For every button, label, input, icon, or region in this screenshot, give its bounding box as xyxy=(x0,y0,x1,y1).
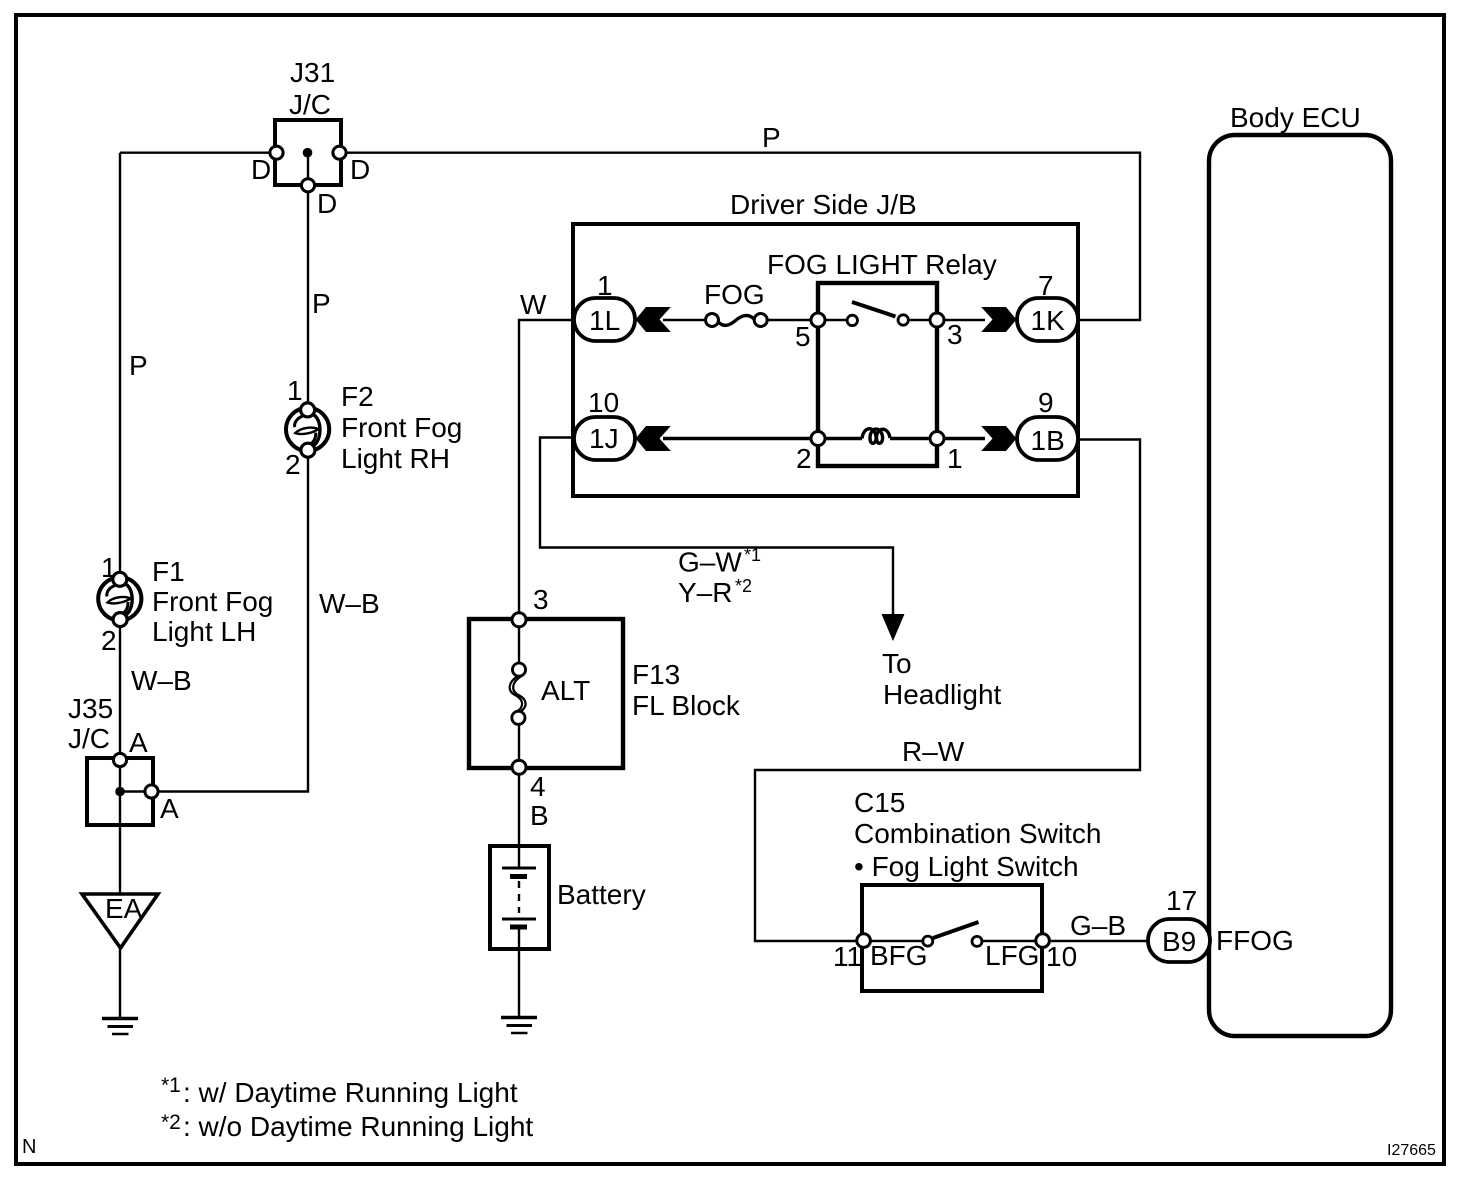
J31 J/C box xyxy=(275,120,341,185)
connector 1K xyxy=(1017,298,1078,341)
svg-text:I27665: I27665 xyxy=(1387,1142,1436,1159)
arrowhead to headlight xyxy=(882,614,905,641)
wire through J35 to EA xyxy=(119,759,121,895)
relay pin 2 xyxy=(811,432,825,446)
svg-text:Front Fog: Front Fog xyxy=(341,412,462,443)
ground symbol battery xyxy=(501,1018,537,1034)
ground symbol left xyxy=(102,1019,138,1035)
wire relay pin5 to left contact xyxy=(818,319,847,321)
C15 pin 10 xyxy=(1036,934,1050,948)
svg-text:17: 17 xyxy=(1166,885,1197,916)
svg-text:2: 2 xyxy=(101,625,117,656)
C15 pin 11 xyxy=(857,934,871,948)
svg-text:C15: C15 xyxy=(854,787,905,818)
svg-text:F13: F13 xyxy=(632,659,680,690)
ground EA triangle xyxy=(82,894,158,948)
wire fuse row: 1L arrow to fuse xyxy=(663,319,712,321)
svg-text:To: To xyxy=(882,648,912,679)
wire relay pin2 to coil xyxy=(818,437,862,440)
svg-text:• Fog Light Switch: • Fog Light Switch xyxy=(854,851,1079,882)
svg-text:Light RH: Light RH xyxy=(341,443,450,474)
wire W-B from F2 down and left to J35 xyxy=(152,457,308,792)
svg-text:N: N xyxy=(22,1136,36,1158)
F13 fusible link ALT xyxy=(510,663,526,724)
wire G-B from C15 pin10 to B9 xyxy=(1042,940,1150,942)
svg-text:Light LH: Light LH xyxy=(152,616,256,647)
svg-text:J/C: J/C xyxy=(289,89,331,120)
svg-text:9: 9 xyxy=(1038,387,1054,418)
svg-text:B9: B9 xyxy=(1162,926,1196,957)
svg-text:W–B: W–B xyxy=(319,588,380,619)
wire J35 dot to right pin xyxy=(120,790,152,792)
svg-text:W–B: W–B xyxy=(131,665,192,696)
svg-text:3: 3 xyxy=(533,584,549,615)
connector B9 xyxy=(1148,919,1210,962)
svg-text:*2: *2 xyxy=(735,576,752,596)
wire R-W from 1B to C15 pin11 xyxy=(755,440,1140,942)
J35 junction dot xyxy=(115,787,125,797)
svg-text:1L: 1L xyxy=(589,305,620,336)
svg-text:FL Block: FL Block xyxy=(632,690,741,721)
svg-text:1B: 1B xyxy=(1031,425,1065,456)
wire P from J31 down to F2 xyxy=(307,186,309,404)
svg-text:3: 3 xyxy=(947,319,963,350)
svg-text:*2: *2 xyxy=(161,1111,181,1134)
svg-text:F2: F2 xyxy=(341,381,374,412)
svg-text:EA: EA xyxy=(105,893,143,924)
F13 pin 4 xyxy=(512,760,526,774)
FOG LIGHT Relay box xyxy=(818,283,937,466)
J31 pin bottom D xyxy=(301,179,314,192)
svg-text:FOG LIGHT Relay: FOG LIGHT Relay xyxy=(767,249,997,280)
wire W-B left below F1 to J35 xyxy=(119,627,121,759)
svg-text:A: A xyxy=(160,793,179,824)
Body ECU box xyxy=(1209,135,1391,1036)
connector 1L xyxy=(574,298,635,341)
svg-text:G–W: G–W xyxy=(678,547,742,578)
wire G-W from 1J to headlight arrow xyxy=(540,438,893,618)
svg-text:5: 5 xyxy=(795,321,811,352)
lamp F2 front fog light RH xyxy=(286,403,329,457)
wire C15 right contact to pin10 xyxy=(982,940,1042,942)
arrow at 1L xyxy=(636,307,671,332)
svg-text:Battery: Battery xyxy=(557,879,646,910)
svg-text:Y–R: Y–R xyxy=(678,577,732,608)
relay pin 5 xyxy=(811,313,825,327)
battery internals xyxy=(502,868,536,927)
svg-text:D: D xyxy=(350,154,370,185)
connector 1J xyxy=(574,417,635,460)
lamp F1 front fog light LH xyxy=(98,572,141,626)
wire EA to ground xyxy=(119,947,121,1018)
svg-text:1K: 1K xyxy=(1031,305,1066,336)
svg-text:P: P xyxy=(129,350,148,381)
svg-text:1: 1 xyxy=(101,552,117,583)
battery box xyxy=(490,846,549,949)
svg-text:7: 7 xyxy=(1038,270,1054,301)
wire pin3 to 1K arrow xyxy=(937,319,985,321)
svg-text:W: W xyxy=(520,289,547,320)
wire F13 internal upper xyxy=(518,619,520,666)
J31 pin right D xyxy=(333,146,346,159)
svg-text:ALT: ALT xyxy=(541,675,590,706)
wire 1J arrow to relay pin2 xyxy=(663,437,818,440)
svg-text:J/C: J/C xyxy=(68,723,110,754)
J31 pin left D xyxy=(270,146,283,159)
svg-text:G–B: G–B xyxy=(1070,910,1126,941)
svg-text:1J: 1J xyxy=(589,423,619,454)
relay switch contact right xyxy=(898,315,908,325)
wire J31 dot to bottom pin xyxy=(307,153,309,186)
svg-text:1: 1 xyxy=(947,443,963,474)
svg-text:1: 1 xyxy=(287,375,303,406)
svg-text:J35: J35 xyxy=(68,693,113,724)
svg-text:P: P xyxy=(762,122,781,153)
wire P top horizontal J31 to right riser xyxy=(340,153,1140,320)
C15 switch contact left xyxy=(923,936,933,946)
J31 junction dot xyxy=(303,148,313,158)
Driver Side J/B box xyxy=(573,224,1078,496)
wire F13 internal lower xyxy=(518,715,520,768)
wire fuse to relay pin5 xyxy=(760,319,818,321)
arrow at 1J xyxy=(636,426,671,451)
arrow at 1K xyxy=(981,307,1016,332)
svg-text:1: 1 xyxy=(597,270,613,301)
svg-text:D: D xyxy=(251,154,271,185)
wire pin1 to 1B arrow xyxy=(937,437,985,440)
C15 switch blade xyxy=(933,922,979,938)
wire F13 pin4 to battery xyxy=(518,768,520,868)
svg-text:FOG: FOG xyxy=(704,279,765,310)
wire battery to ground xyxy=(518,927,520,1017)
wire W from 1L to F13 pin 3 xyxy=(519,320,574,619)
svg-text:4: 4 xyxy=(530,771,546,802)
svg-text:10: 10 xyxy=(588,387,619,418)
svg-text:Front Fog: Front Fog xyxy=(152,586,273,617)
svg-text:: w/o Daytime Running Light: : w/o Daytime Running Light xyxy=(183,1111,533,1142)
svg-text:Body ECU: Body ECU xyxy=(1230,102,1361,133)
J35 pin top A xyxy=(113,753,126,766)
svg-text:2: 2 xyxy=(796,443,812,474)
svg-text:Driver Side J/B: Driver Side J/B xyxy=(730,189,917,220)
svg-text:*1: *1 xyxy=(161,1074,181,1097)
fuse FOG xyxy=(706,314,768,327)
svg-text:2: 2 xyxy=(285,449,301,480)
svg-text:11: 11 xyxy=(833,941,862,972)
svg-text:Headlight: Headlight xyxy=(883,679,1002,710)
relay pin 3 xyxy=(930,313,944,327)
svg-text:FFOG: FFOG xyxy=(1216,925,1294,956)
C15 fog light switch box xyxy=(862,885,1042,991)
connector 1B xyxy=(1017,417,1078,460)
svg-text:B: B xyxy=(530,800,549,831)
svg-text:A: A xyxy=(129,727,148,758)
wire P top horizontal from left riser to J31 xyxy=(120,151,276,153)
relay coil xyxy=(862,429,890,444)
J35 J/C box xyxy=(87,758,153,825)
svg-text:LFG: LFG xyxy=(985,940,1039,971)
svg-text:BFG: BFG xyxy=(870,940,928,971)
svg-text:10: 10 xyxy=(1046,941,1077,972)
F13 FL Block box xyxy=(469,619,623,768)
svg-text:P: P xyxy=(312,288,331,319)
wire coil to pin1 xyxy=(890,437,937,440)
svg-text:D: D xyxy=(317,188,337,219)
relay switch contact left xyxy=(847,315,857,325)
svg-text:R–W: R–W xyxy=(902,736,965,767)
svg-text:: w/ Daytime Running Light: : w/ Daytime Running Light xyxy=(183,1077,518,1108)
svg-text:F1: F1 xyxy=(152,556,185,587)
C15 switch contact right xyxy=(972,936,982,946)
wire right contact to pin3 xyxy=(908,319,937,321)
F13 pin 3 xyxy=(512,613,526,627)
relay switch blade xyxy=(852,302,896,317)
J35 pin right A xyxy=(145,785,158,798)
relay pin 1 xyxy=(930,432,944,446)
arrow at 1B xyxy=(981,426,1016,451)
wire C15 pin11 to left contact xyxy=(862,940,923,942)
wire P left riser xyxy=(119,153,121,573)
svg-text:*1: *1 xyxy=(744,545,761,565)
svg-text:J31: J31 xyxy=(290,57,335,88)
svg-text:Combination Switch: Combination Switch xyxy=(854,818,1101,849)
